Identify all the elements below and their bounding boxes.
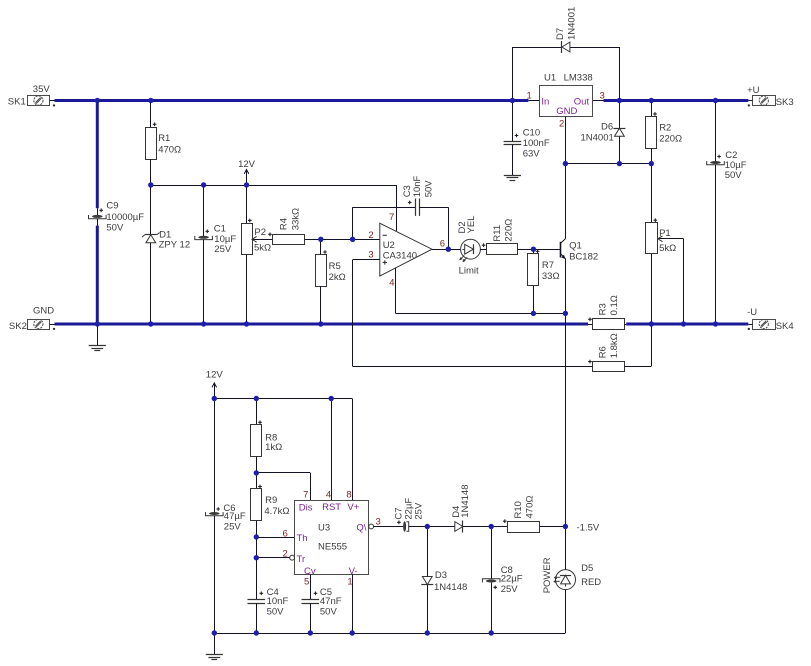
svg-text:470Ω: 470Ω: [158, 144, 181, 155]
terminal SK4: [753, 320, 776, 330]
svg-text:Cv: Cv: [304, 566, 316, 577]
svg-text:V+: V+: [347, 502, 359, 513]
svg-text:4: 4: [389, 278, 394, 289]
wire LM338 gnd node row: [565, 163, 651, 165]
capacitor C1 10uF 25V: [195, 236, 213, 240]
resistor R6 1.8k: [593, 362, 625, 372]
wire U2 output: [432, 249, 461, 251]
wire D3 to bottom rail: [427, 585, 429, 634]
svg-text:Q\: Q\: [356, 522, 366, 533]
wire U2 pin3 down: [352, 260, 354, 367]
wire P1 wiper down to GND bus: [683, 239, 685, 324]
wire R7 to pin4 row: [533, 286, 535, 314]
svg-text:12V: 12V: [206, 370, 224, 381]
wire D7 loop left vertical: [512, 47, 514, 101]
svg-text:8: 8: [346, 489, 351, 500]
svg-text:1.8kΩ: 1.8kΩ: [609, 333, 620, 358]
svg-text:GND: GND: [556, 106, 577, 117]
wire R2 to gnd node row: [651, 148, 653, 163]
svg-text:1: 1: [527, 91, 532, 102]
wire U1 GND pin down: [565, 117, 567, 164]
svg-text:0.1Ω: 0.1Ω: [609, 295, 620, 315]
svg-text:12V: 12V: [238, 159, 256, 170]
diode D4 1N4148: [462, 521, 464, 533]
capacitor C3 10nF 50V: [415, 199, 417, 216]
wire In stub: [528, 100, 539, 102]
wire GND bus from R3 to SK4: [626, 323, 748, 326]
wire U3 pin1 V- down to rail: [352, 574, 354, 633]
resistor R5 2k: [316, 255, 327, 287]
wire bus to C10: [512, 101, 514, 142]
svg-text:D5: D5: [581, 563, 593, 574]
resistor R9 4.7k: [251, 489, 262, 521]
svg-text:470Ω: 470Ω: [525, 496, 536, 519]
wire 35V bus from U1 Out to SK3: [604, 99, 749, 102]
U3 Q inversion bubble: [369, 524, 374, 529]
svg-text:1N4148: 1N4148: [460, 485, 471, 518]
wire P1 to GND bus: [651, 254, 653, 324]
wire R10 to -1.5V node: [540, 526, 566, 528]
svg-text:2: 2: [559, 118, 564, 129]
svg-text:R4: R4: [279, 218, 290, 230]
wire D7 loop top left: [512, 47, 562, 49]
terminal SK2: [28, 320, 50, 330]
regulator U1 LM338: [540, 86, 593, 117]
wire lower 12V rail: [214, 398, 352, 400]
svg-text:50V: 50V: [423, 180, 434, 198]
wire C10 to ground: [512, 144, 514, 175]
wire 35V feed down to C9: [96, 101, 99, 209]
zener diode D1 ZPY12: [145, 234, 157, 236]
svg-text:U3: U3: [318, 522, 330, 533]
wire R11 to Q1 base: [518, 249, 561, 251]
svg-text:D3: D3: [435, 570, 447, 581]
svg-text:BC182: BC182: [569, 251, 598, 262]
capacitor C4 10nF 50V: [248, 599, 266, 601]
svg-text:R2: R2: [659, 123, 671, 134]
wire rail to R8: [256, 399, 258, 425]
svg-text:50V: 50V: [320, 606, 338, 617]
svg-text:10000µF: 10000µF: [106, 212, 144, 223]
svg-text:47µF: 47µF: [224, 511, 246, 522]
svg-text:6: 6: [440, 239, 445, 250]
transistor Q1 BC182: [560, 242, 562, 258]
wire GND bus from SK2 to R3: [55, 323, 589, 326]
svg-text:5kΩ: 5kΩ: [254, 243, 271, 254]
svg-text:25V: 25V: [501, 584, 519, 595]
svg-text:D7: D7: [555, 28, 566, 40]
wire left column to C6: [214, 399, 216, 513]
svg-text:5kΩ: 5kΩ: [659, 243, 676, 254]
wire U3 pin4 RST up to rail: [331, 399, 333, 501]
wire R3 right stub: [625, 324, 627, 326]
capacitor C2 10uF 50V: [707, 161, 725, 165]
wire D6 to gnd node row: [619, 136, 621, 163]
resistor R11 220ohm: [487, 244, 518, 255]
wire rail to C1: [203, 185, 205, 236]
svg-text:SK1: SK1: [8, 96, 26, 107]
wire C5 to bottom rail: [310, 603, 312, 633]
svg-text:ZPY 12: ZPY 12: [159, 240, 191, 251]
wire D7 loop top right: [570, 47, 619, 49]
svg-text:R11: R11: [492, 225, 503, 242]
power arrow 12V lower: [214, 384, 216, 399]
svg-text:Tr: Tr: [297, 554, 306, 565]
resistor R7 33ohm: [528, 254, 539, 286]
potentiometer P1 5k: [646, 223, 658, 254]
wire U3 pin5 Cv down to C5: [310, 574, 312, 599]
svg-text:C1: C1: [214, 224, 226, 235]
svg-text:1N4001: 1N4001: [581, 133, 614, 144]
P2 wiper arrow: [252, 239, 273, 241]
wire C3 to output corner: [419, 207, 448, 209]
svg-text:C10: C10: [523, 127, 540, 138]
svg-text:2: 2: [283, 548, 288, 559]
resistor R3 0.1ohm: [593, 319, 625, 330]
svg-text:RST: RST: [322, 502, 341, 513]
wire C9 to GND bus: [96, 226, 99, 324]
wire bus to C2: [715, 101, 717, 162]
op-amp U2 CA3140: [380, 223, 432, 276]
svg-text:SK4: SK4: [776, 321, 794, 332]
svg-text:220Ω: 220Ω: [503, 219, 514, 242]
svg-text:7: 7: [303, 489, 308, 500]
wire R6 right to bus node: [625, 366, 652, 368]
wire bus to R1: [150, 101, 152, 128]
svg-text:Limit: Limit: [459, 266, 479, 277]
wire C8 to bottom rail: [491, 583, 493, 633]
wire LED to R11: [480, 249, 486, 251]
ground below bottom rail: [214, 633, 216, 654]
svg-text:GND: GND: [33, 306, 54, 317]
resistor R4 33k: [273, 235, 305, 245]
wire R8 to node: [256, 457, 258, 473]
svg-text:2kΩ: 2kΩ: [329, 272, 346, 283]
svg-text:SK3: SK3: [776, 97, 794, 108]
capacitor C7 22uF 25V: [407, 522, 409, 532]
LED D2 YEL: [461, 239, 481, 259]
capacitor C6 47uF 25V: [206, 512, 224, 516]
svg-text:SK2: SK2: [9, 321, 27, 332]
junction dots: [95, 98, 100, 103]
power arrow 12V: [246, 170, 248, 185]
resistor R10 470ohm: [508, 522, 540, 533]
wire rail to D1: [150, 185, 152, 235]
wire Th to U3: [256, 537, 294, 539]
wire feedback vertical from pin2 node: [352, 207, 354, 239]
svg-text:Th: Th: [297, 533, 308, 544]
svg-text:5: 5: [304, 576, 309, 587]
timer U3 NE555: [295, 501, 369, 575]
wire node down to C8: [491, 527, 493, 579]
wire 12V rail down to U2 pin7: [396, 185, 398, 231]
svg-text:CA3140: CA3140: [383, 251, 417, 262]
wire 35V bus from SK1 to U1 In: [55, 99, 529, 102]
diode D3 1N4148: [421, 584, 433, 586]
diode D7 1N4001: [561, 41, 563, 53]
svg-text:50V: 50V: [267, 606, 285, 617]
svg-text:25V: 25V: [224, 521, 242, 532]
svg-text:RED: RED: [581, 577, 601, 588]
svg-text:R10: R10: [513, 501, 524, 518]
svg-text:22µF: 22µF: [501, 573, 523, 584]
wire C4 to bottom rail: [256, 603, 258, 633]
svg-text:1: 1: [347, 576, 352, 587]
svg-text:LM338: LM338: [564, 72, 593, 83]
svg-text:3: 3: [376, 517, 381, 528]
wire D4 to C8 node: [463, 526, 508, 528]
wire node to R9: [256, 473, 258, 489]
U3 Tr inversion bubble: [290, 555, 295, 560]
wire pin3 node to R6: [353, 366, 593, 368]
svg-text:100nF: 100nF: [523, 138, 550, 149]
svg-text:In: In: [541, 97, 549, 108]
svg-text:-U: -U: [747, 307, 757, 318]
svg-text:3: 3: [600, 91, 605, 102]
wire Q1 collector up to LM338 GND node: [565, 164, 567, 239]
svg-text:1N4148: 1N4148: [434, 582, 467, 593]
wire rail corner down to U3 pin8: [352, 399, 354, 501]
wire U2 pin3 left: [353, 259, 380, 261]
terminal SK3: [753, 96, 776, 106]
wire R9 down through Th and Tr nodes: [256, 521, 258, 600]
svg-text:4: 4: [326, 489, 331, 500]
resistor R1 470ohm: [146, 128, 157, 160]
svg-text:33kΩ: 33kΩ: [291, 208, 302, 230]
wire pin4 row: [396, 313, 566, 315]
svg-text:R5: R5: [329, 261, 341, 272]
svg-text:R3: R3: [598, 303, 609, 315]
resistor R2 220ohm: [646, 117, 657, 149]
svg-text:7: 7: [389, 212, 394, 223]
svg-text:33Ω: 33Ω: [542, 271, 560, 282]
svg-text:1N4001: 1N4001: [567, 7, 578, 40]
wire node to R7: [533, 249, 535, 254]
wire node to U3 pin7: [256, 472, 310, 474]
terminal SK1: [28, 96, 50, 106]
wire R3 left stub: [588, 324, 592, 326]
wire R1 to 12V rail node: [150, 159, 152, 185]
svg-text:6: 6: [283, 529, 288, 540]
wire 12V rail: [151, 185, 396, 187]
svg-text:25V: 25V: [413, 502, 424, 520]
wire node to P1: [651, 164, 653, 223]
svg-text:R1: R1: [158, 133, 170, 144]
svg-text:YEL: YEL: [466, 216, 477, 234]
svg-text:Q1: Q1: [569, 241, 582, 252]
wire bottom rail: [214, 633, 565, 635]
svg-text:1kΩ: 1kΩ: [265, 442, 282, 453]
svg-text:C9: C9: [106, 201, 118, 212]
svg-text:R7: R7: [542, 260, 554, 271]
svg-text:25V: 25V: [214, 244, 232, 255]
svg-text:-1.5V: -1.5V: [577, 523, 600, 534]
diode D6 1N4001: [613, 128, 625, 130]
wire P2 to GND bus: [246, 254, 248, 324]
wire D1 to GND bus: [150, 243, 152, 324]
wire Out stub: [593, 100, 604, 102]
svg-text:NE555: NE555: [318, 541, 347, 552]
ground below C10: [504, 175, 521, 177]
capacitor C8 22uF 25V: [482, 579, 500, 583]
wire C1 to GND bus: [203, 240, 205, 324]
svg-text:U2: U2: [383, 240, 395, 251]
wire D7 loop right vertical: [619, 47, 621, 101]
wire feedback top to C3: [353, 207, 416, 209]
wire U3 output to C7: [374, 526, 404, 528]
svg-text:63V: 63V: [523, 149, 541, 160]
wire U2 pin4 down: [395, 268, 397, 314]
svg-text:4.7kΩ: 4.7kΩ: [264, 506, 289, 517]
svg-text:Dis: Dis: [299, 502, 313, 513]
capacitor C9 10000uF 50V: [97, 208, 99, 215]
svg-text:C2: C2: [725, 150, 737, 161]
wire node to R5: [320, 239, 322, 254]
wire Tr to U3: [256, 557, 289, 559]
ground below SK bus junction: [97, 324, 99, 345]
potentiometer P2 5k: [242, 224, 253, 255]
P1 wiper arrow: [658, 238, 684, 240]
capacitor C10 100nF 63V: [504, 141, 522, 143]
wire R4 to U2 pin2: [305, 239, 380, 241]
svg-text:35V: 35V: [33, 84, 51, 95]
svg-text:10nF: 10nF: [412, 175, 423, 197]
wire C7 to D3 node: [409, 526, 428, 528]
wire node down to D3: [427, 527, 429, 577]
wire feedback down to output node: [448, 207, 450, 249]
svg-text:R6: R6: [598, 346, 609, 358]
svg-text:2: 2: [368, 230, 373, 241]
capacitor C5 47nF 50V: [302, 599, 320, 601]
svg-text:50V: 50V: [725, 170, 743, 181]
wire C6 down to bottom rail: [214, 516, 216, 633]
wire bus to D6: [619, 101, 621, 129]
wire -1.5V node down to LED D5: [565, 527, 567, 570]
svg-text:220Ω: 220Ω: [659, 134, 682, 145]
LED D5 RED: [556, 570, 576, 590]
resistor R8 1k: [251, 425, 262, 457]
svg-text:D6: D6: [601, 122, 613, 133]
wire rail to P2: [246, 185, 248, 223]
svg-text:R9: R9: [265, 495, 277, 506]
wire D5 to bottom rail corner: [565, 590, 567, 633]
svg-text:U1: U1: [544, 72, 556, 83]
svg-text:3: 3: [368, 250, 373, 261]
svg-text:V-: V-: [349, 566, 358, 577]
wire Q1 emitter down to -1.5V node: [565, 259, 567, 527]
wire C2 to GND bus: [715, 165, 717, 324]
wire R5 to GND bus: [320, 286, 322, 324]
wire bus to R2: [651, 101, 653, 117]
svg-text:+U: +U: [747, 85, 760, 96]
svg-text:POWER: POWER: [542, 557, 553, 593]
svg-text:50V: 50V: [106, 222, 124, 233]
